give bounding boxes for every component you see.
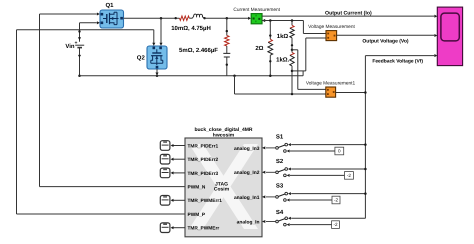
inductor 4.75uH coil <box>192 14 203 18</box>
wire ground rail (bottom) <box>80 75 304 77</box>
wire VM+ from output rail down <box>302 21 304 34</box>
wire S1 upper input from feedback net <box>291 144 365 146</box>
node feedback net junction S3 <box>364 192 367 195</box>
transistor Q2 MOSFET block <box>147 46 167 69</box>
wire 2ohm to ground rail <box>269 55 271 76</box>
switch S1 manual switch <box>262 143 291 152</box>
wire PWM_P net: JTAG PWM_P output left, up, right to Q2 gate <box>17 213 186 215</box>
node 1kohm lower / VM- junction <box>291 70 294 73</box>
svg-text:Current Measurement: Current Measurement <box>233 7 280 13</box>
voltmeter Voltage Measurement block <box>326 31 337 41</box>
wire output rail down to 2ohm load <box>269 21 271 40</box>
wire Q2 source to ground rail <box>156 69 158 73</box>
wire feedback to scope (Feedback Voltage) <box>365 55 434 57</box>
wire divider tap to Voltage Measurement1 + input <box>292 49 298 51</box>
wire Voltage Measurement out to scope (Output Voltage) <box>337 34 435 36</box>
svg-text:analog_In2: analog_In2 <box>234 170 260 176</box>
node divider bottom on lower ground line <box>291 93 294 96</box>
svg-text:TMR_PWMErr: TMR_PWMErr <box>188 226 220 232</box>
svg-text:S3: S3 <box>276 183 284 190</box>
node LC filter tap junction <box>226 17 229 20</box>
node 2ohm ground junction <box>269 75 272 78</box>
wire divider tap to 1kohm lower <box>291 50 293 53</box>
svg-text:0: 0 <box>338 149 341 154</box>
node 2ohm port dot <box>269 34 271 36</box>
constant block value 0 for S1 <box>335 147 344 155</box>
svg-text:Vin: Vin <box>65 43 75 50</box>
wire LC tap down to filter capacitor branch <box>226 18 228 35</box>
node inductor port dot <box>203 17 205 19</box>
svg-text:analog_In: analog_In <box>237 219 260 225</box>
node feedback net joins VM1 output <box>364 91 367 94</box>
svg-text:S2: S2 <box>276 158 284 165</box>
scope block (magenta display) <box>437 7 462 66</box>
svg-text:PWM_P: PWM_P <box>188 212 206 218</box>
wire inductor to Current Measurement block <box>205 17 249 19</box>
constant block value -2 for S2 <box>345 172 354 180</box>
transistor Q1 MOSFET block <box>100 10 124 28</box>
svg-text:S4: S4 <box>276 209 284 216</box>
node cap branch port dot <box>226 30 228 32</box>
node switch-node junction to Q2 drain <box>160 17 163 20</box>
node Vin- junction on ground rail <box>78 75 81 78</box>
constant block value -2 for S3 <box>332 196 340 204</box>
wire capacitor to ground rail <box>226 57 228 76</box>
svg-text:Output Current (Io): Output Current (Io) <box>325 11 372 17</box>
svg-text:analog_In3: analog_In3 <box>234 146 260 152</box>
resistor 10mohm series (red zigzag) <box>180 16 190 20</box>
node 2ohm bottom port dot <box>269 60 271 62</box>
wire S4 lower input from constant <box>290 224 332 226</box>
node feedback net junction S1 <box>364 143 367 146</box>
switch S3 manual switch <box>262 192 291 201</box>
svg-text:5mΩ, 2.466µF: 5mΩ, 2.466µF <box>179 47 218 54</box>
scope viewer block for TMR_PIDErr1 <box>160 141 170 151</box>
svg-text:analog_In1: analog_In1 <box>234 195 260 201</box>
wire TMR_PWMErr1 to viewer <box>173 199 185 201</box>
svg-text:-2: -2 <box>333 222 338 227</box>
resistor 1kohm upper (red tick + zigzag) <box>290 25 294 28</box>
node Vin+ port dot <box>78 30 80 32</box>
voltage source Vin (DC battery symbol) <box>75 44 84 46</box>
svg-text:-2: -2 <box>347 173 352 178</box>
constant block value -2 for S4 <box>332 221 340 229</box>
wire TMR_PIDErr1 to viewer <box>173 145 185 147</box>
svg-text:1kΩ: 1kΩ <box>277 33 289 40</box>
svg-text:Voltage Measurement1: Voltage Measurement1 <box>306 80 356 86</box>
node feedback net junction S2 <box>364 168 367 171</box>
svg-text:hwcosim: hwcosim <box>213 133 235 139</box>
switch S2 manual switch <box>262 168 291 177</box>
voltmeter Voltage Measurement1 block <box>326 87 336 97</box>
svg-text:2Ω: 2Ω <box>255 45 263 52</box>
node divider tap junction <box>291 49 294 52</box>
wire S2 upper input from feedback net <box>291 168 365 170</box>
resistor 1kohm lower (red tick + zigzag) <box>290 52 294 55</box>
resistor 5mohm ESR (red zigzag) <box>225 36 229 47</box>
switch S4 manual switch <box>262 217 291 226</box>
wire switch node down to Q2 drain port <box>160 18 162 43</box>
svg-text:Cosim: Cosim <box>214 187 230 193</box>
node series element port dot <box>175 17 177 19</box>
svg-text:1kΩ.: 1kΩ. <box>276 56 289 63</box>
wire S3 upper input from feedback net <box>291 193 365 195</box>
wire feedback net vertical <box>364 56 366 219</box>
wire output rail down to divider <box>291 21 293 26</box>
svg-text:Output Voltage (Vo): Output Voltage (Vo) <box>362 38 409 44</box>
svg-text:Q1: Q1 <box>105 2 114 9</box>
wire switch node rail Q1.S to series RL <box>124 17 180 19</box>
wire S4 upper input from feedback net <box>291 217 365 219</box>
svg-text:PWM_N: PWM_N <box>188 185 206 191</box>
node capacitor port dot <box>226 63 228 65</box>
svg-text:Q2: Q2 <box>137 55 146 62</box>
current sensor Current Measurement block <box>251 14 265 24</box>
wire S2 lower input from constant <box>290 174 345 176</box>
wire 1kohm upper to divider tap <box>291 38 293 50</box>
node divider branch junction <box>291 19 294 22</box>
wire ESR to capacitor <box>226 46 228 53</box>
svg-text:S1: S1 <box>276 134 284 141</box>
capacitor 2.466uF plates <box>223 52 230 54</box>
node 2ohm load branch junction <box>269 19 272 22</box>
svg-text:TMR_PIDErr2: TMR_PIDErr2 <box>188 157 219 163</box>
svg-text:TMR_PIDErr1: TMR_PIDErr1 <box>188 143 219 149</box>
node 1kohm upper port dot <box>291 44 293 46</box>
wire Current Measurement signal out to scope (Output Current) <box>262 15 434 17</box>
wire ground rail end link up to divider-bottom net <box>302 71 304 76</box>
subsystem buck_close_digital_4MR hwcosim (JTAG Cosim block) <box>185 138 262 237</box>
svg-text:TMR_PIDErr3: TMR_PIDErr3 <box>188 171 219 177</box>
wire Vin- down to ground rail <box>79 48 81 76</box>
wire TMR_PIDErr3 to viewer <box>173 172 185 174</box>
scope viewer block for TMR_PIDErr2 <box>160 154 170 164</box>
wire S1 lower input from constant <box>290 150 335 152</box>
svg-text:10mΩ, 4.75µH: 10mΩ, 4.75µH <box>171 25 211 32</box>
wire lower ground line to Voltage Measurement1 <box>234 76 236 94</box>
scope viewer block for TMR_PWMErr <box>160 223 170 233</box>
wire between 10mohm and inductor <box>189 17 192 19</box>
wire PWM_N net: JTAG PWM_N output left then up to Q1 gate <box>40 186 186 188</box>
wire Q1 drain to Vin+ node <box>80 22 97 24</box>
wire output rail after Current Measurement <box>262 20 303 22</box>
wire 1kohm lower down to lower ground line <box>291 66 293 94</box>
node ground-to-lower-line branch junction <box>233 75 236 78</box>
svg-text:TMR_PWMErr1: TMR_PWMErr1 <box>188 198 223 204</box>
svg-text:Voltage Measurement: Voltage Measurement <box>308 24 355 30</box>
wire S3 lower input from constant <box>290 199 332 201</box>
wire TMR_PIDErr2 to viewer <box>173 158 185 160</box>
scope viewer block for TMR_PWMErr1 <box>160 196 170 206</box>
wire TMR_PWMErr to viewer <box>173 227 185 229</box>
node Q2 source junction on ground rail <box>156 75 159 78</box>
resistor 2ohm load (red tick + zigzag) <box>268 39 272 42</box>
svg-text:-2: -2 <box>334 198 339 203</box>
svg-text:Feedback Voltage (Vf): Feedback Voltage (Vf) <box>372 59 423 65</box>
scope viewer block for TMR_PIDErr3 <box>160 168 170 178</box>
wire Voltage Measurement1 out to feedback net <box>336 92 366 94</box>
wire VM- from divider bottom net <box>292 70 306 72</box>
